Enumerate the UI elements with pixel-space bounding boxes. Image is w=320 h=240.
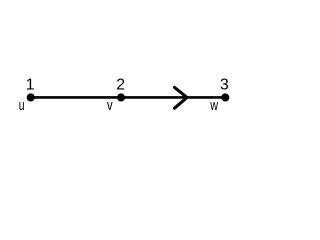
- node 3 (w): [221, 93, 229, 101]
- svg-text:2: 2: [116, 77, 125, 94]
- graph diagram: path u-v-w with directed edge arrow: [0, 0, 250, 179]
- svg-text:1: 1: [26, 77, 35, 94]
- node 2 (v): [117, 93, 125, 101]
- wire edge u-v-w: [31, 96, 226, 99]
- svg-text:v: v: [107, 98, 113, 114]
- arrowhead mid-edge v->w: [175, 87, 188, 108]
- node 1 (u): [27, 93, 35, 101]
- svg-text:u: u: [19, 98, 25, 114]
- svg-text:3: 3: [220, 77, 229, 94]
- svg-text:w: w: [210, 98, 219, 114]
